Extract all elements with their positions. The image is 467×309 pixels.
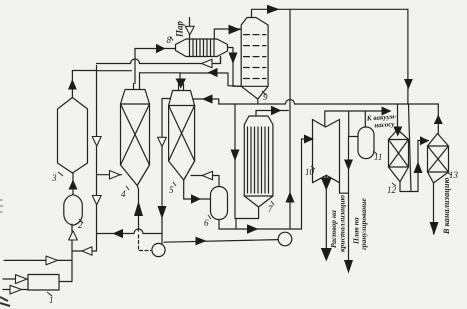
svg-text:кристаллизацию: кристаллизацию [338, 194, 347, 252]
svg-text:9: 9 [263, 92, 268, 102]
svg-text:Пар: Пар [175, 20, 185, 38]
svg-text:2: 2 [78, 220, 83, 230]
svg-text:В канализацию: В канализацию [442, 177, 451, 235]
svg-text:6: 6 [204, 218, 209, 228]
svg-text:11: 11 [374, 152, 382, 162]
svg-text:1: 1 [49, 295, 54, 305]
svg-text:гранулирование: гранулирование [359, 198, 368, 250]
svg-text:насосу: насосу [374, 120, 395, 129]
svg-text:3: 3 [51, 173, 57, 183]
svg-text:12: 12 [387, 185, 397, 195]
svg-text:4: 4 [121, 189, 126, 199]
svg-text:7: 7 [268, 204, 273, 214]
svg-text:10: 10 [305, 167, 315, 177]
svg-text:5: 5 [169, 185, 174, 195]
